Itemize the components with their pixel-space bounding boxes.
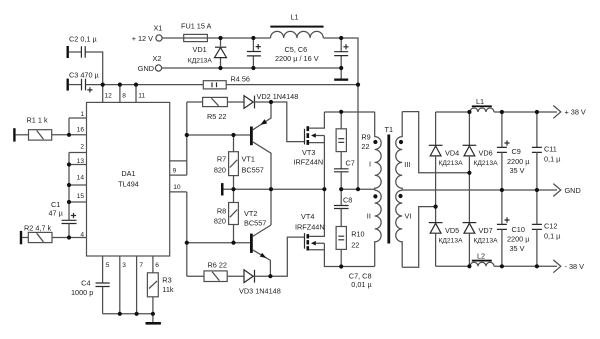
capacitor C5 (2200u/16V) (247, 38, 261, 68)
diode VD3 1N4148 (239, 270, 281, 296)
node pin8 bus (118, 83, 122, 87)
diode VD5 КД213А (429, 207, 463, 267)
node C9 top (500, 110, 504, 114)
svg-text:L2: L2 (477, 251, 485, 260)
node pin10/VT2 base line (185, 241, 189, 245)
svg-text:4: 4 (80, 231, 84, 238)
pin 10 wire down to R6 line (186, 192, 188, 276)
node collectors ground (269, 187, 273, 191)
svg-text:8: 8 (122, 93, 126, 100)
svg-text:5: 5 (106, 262, 110, 269)
svg-text:14: 14 (77, 175, 85, 182)
svg-text:X2: X2 (153, 54, 162, 63)
node VT2 emitter / VD3 (268, 274, 272, 278)
transistor VT3 IRFZ44N (294, 112, 325, 189)
svg-text:820: 820 (214, 217, 226, 226)
winding VI (396, 190, 402, 267)
transistor VT1 BC557 (242, 102, 272, 225)
wire L1 to corner, down to rail R4 and center tap (323, 38, 358, 189)
node pin16/R1 (67, 133, 71, 137)
node VT3 source ground (322, 187, 326, 191)
phasing dot winding I (373, 140, 377, 144)
node VT1 emitter / VD2 (269, 100, 273, 104)
node pin7 rail (135, 312, 139, 316)
svg-text:C10: C10 (512, 225, 525, 234)
svg-text:T1: T1 (385, 125, 394, 134)
svg-text:R4 56: R4 56 (231, 74, 250, 83)
node pin15 (67, 200, 71, 204)
svg-text:22: 22 (351, 241, 359, 250)
-38V arrow (553, 260, 584, 273)
svg-text:I: I (369, 159, 371, 168)
wire X1 to fuse (162, 37, 184, 39)
capacitor C12 0,1u (532, 222, 561, 267)
resistor R3 11k (147, 273, 173, 314)
pin 9 branch to VT1 base (187, 134, 250, 136)
capacitor C8 (334, 189, 352, 208)
svg-text:C2 0,1 µ: C2 0,1 µ (69, 35, 98, 44)
svg-text:12: 12 (105, 93, 113, 100)
+38V rail (436, 111, 470, 113)
svg-text:C9: C9 (512, 147, 521, 156)
diode VD2 1N4148 (244, 92, 298, 108)
svg-text:КД213А: КД213А (439, 238, 464, 245)
diode VD4 КД213А (429, 112, 463, 207)
svg-text:GND: GND (565, 186, 581, 195)
node C7/C8 center (339, 187, 343, 191)
winding II (375, 190, 381, 266)
GND rail from X2 (162, 67, 342, 69)
VCC bus to R4 (86, 84, 204, 86)
svg-text:11: 11 (138, 93, 145, 100)
inductor L2 (470, 251, 494, 266)
svg-text:35 V: 35 V (510, 166, 525, 175)
svg-text:VD2 1N4148: VD2 1N4148 (257, 92, 299, 101)
IC bottom rail (103, 313, 153, 315)
pin 9 wire up to R5 line (186, 102, 188, 175)
svg-text:820: 820 (214, 165, 226, 174)
svg-text:+ 38 V: + 38 V (565, 108, 586, 117)
IC bottom pin wires 5 3 7 6 (102, 256, 104, 283)
svg-text:1000 p: 1000 p (71, 288, 93, 297)
node pin3 rail (118, 312, 122, 316)
svg-text:BC557: BC557 (244, 218, 266, 227)
node R8 bottom (231, 241, 235, 245)
ground under C6 (334, 79, 348, 81)
capacitor C4 1000p (71, 278, 110, 313)
svg-text:1: 1 (80, 111, 84, 118)
svg-text:R7: R7 (217, 155, 226, 164)
GND output line (402, 189, 557, 191)
node R7/R8 ground (231, 187, 235, 191)
svg-text:6: 6 (155, 262, 159, 269)
svg-text:L1: L1 (476, 97, 484, 106)
resistor R10 22 (336, 209, 364, 267)
ground at IC bottom (146, 314, 161, 325)
node VD4/VD5 winding VI (434, 205, 438, 209)
wire winding VI bottom to VD4/VD5 column (402, 207, 435, 268)
fuse FU1 15 A (181, 22, 212, 42)
IC right pin cells 9 10 (170, 161, 187, 192)
node R10 bottom (339, 264, 343, 268)
svg-text:КД213А: КД213А (474, 160, 499, 167)
capacitor C11 0,1u (532, 112, 561, 224)
node pin13 (67, 162, 71, 166)
winding I (375, 112, 381, 190)
svg-text:VD5: VD5 (445, 226, 459, 235)
-38V rail (436, 265, 470, 267)
node R7 top (231, 133, 235, 137)
svg-text:III: III (404, 160, 410, 169)
pin 11 wire (135, 85, 137, 103)
transistor VT2 BC557 (244, 209, 271, 276)
node R9 top (339, 110, 343, 114)
svg-text:C4: C4 (81, 278, 90, 287)
phasing dot winding III (399, 140, 403, 144)
pin 8 wire (119, 85, 121, 103)
svg-text:7: 7 (139, 262, 143, 269)
svg-text:DA1: DA1 (121, 169, 135, 178)
winding III (396, 112, 402, 191)
node C5 bottom (251, 66, 255, 70)
svg-text:15: 15 (77, 193, 85, 200)
svg-text:C11: C11 (544, 145, 557, 154)
svg-text:- 38 V: - 38 V (565, 262, 585, 271)
svg-text:FU1 15 A: FU1 15 A (181, 22, 212, 31)
svg-text:IRFZ44N: IRFZ44N (294, 158, 324, 167)
GND arrow (553, 184, 580, 197)
wire VD3 node to VT4 gate (270, 237, 304, 276)
svg-text:3: 3 (122, 262, 126, 269)
capacitor C10 2200u 35V (497, 217, 530, 266)
transistor VT4 IRFZ44N (295, 189, 375, 266)
svg-text:VI: VI (405, 212, 412, 221)
diode VD7 КД213А (463, 173, 498, 266)
resistor R6 22 (187, 261, 244, 282)
svg-text:IRFZ44N: IRFZ44N (295, 222, 325, 231)
svg-text:R6 22: R6 22 (208, 261, 227, 270)
svg-text:R3: R3 (162, 276, 171, 285)
svg-text:R5 22: R5 22 (207, 112, 226, 121)
node pin9/R7 line (185, 133, 189, 137)
phasing dot winding II (373, 194, 377, 198)
capacitor C9 2200u 35V (497, 112, 530, 224)
left bus pin1-pin16 (68, 118, 70, 135)
svg-text:C8: C8 (343, 196, 352, 205)
svg-text:VD3 1N4148: VD3 1N4148 (239, 287, 281, 296)
svg-text:C3 470 µ: C3 470 µ (69, 71, 100, 80)
svg-text:22: 22 (361, 142, 369, 151)
pin 12 wire (102, 85, 104, 103)
svg-text:0,1 µ: 0,1 µ (544, 154, 561, 163)
node VD1 bottom (218, 66, 222, 70)
svg-text:R10: R10 (351, 230, 364, 239)
node C5 top (251, 36, 255, 40)
svg-text:2: 2 (80, 144, 84, 151)
wire fuse to L1 (+12V rail) (207, 37, 270, 39)
svg-text:10: 10 (173, 184, 181, 191)
wire VT1 emitter node to VT3 gate (271, 102, 304, 142)
resistor R9 22 (336, 112, 371, 169)
svg-text:GND: GND (138, 64, 154, 73)
terminal X2 (138, 54, 162, 73)
capacitor C6 (2200u/16V) (334, 38, 348, 79)
+38V arrow (553, 106, 586, 119)
svg-text:КД213А: КД213А (439, 160, 464, 167)
svg-text:II: II (367, 212, 371, 221)
svg-text:16: 16 (77, 127, 85, 134)
capacitor C3 470u with terminal (67, 71, 100, 93)
svg-text:0,1 µ: 0,1 µ (544, 231, 561, 240)
wire winding III top over to VD6/VD7 column (402, 112, 469, 173)
svg-text:0,01 µ: 0,01 µ (351, 280, 372, 289)
svg-text:VD7: VD7 (479, 226, 493, 235)
node C11 top (535, 110, 539, 114)
node VD6 top rail (467, 110, 471, 114)
wire L1 to +38V arrow (494, 111, 557, 113)
node pin14 (67, 183, 71, 187)
node R4 right (356, 83, 360, 87)
svg-text:VD6: VD6 (479, 149, 493, 158)
node C12 bottom (535, 264, 539, 268)
wire L2 to -38V arrow (494, 265, 557, 267)
node VD1 top (218, 36, 222, 40)
svg-text:R2 4,7 k: R2 4,7 k (24, 223, 52, 232)
wire R4 to +12 rail (226, 84, 358, 86)
svg-text:VT1: VT1 (242, 155, 255, 164)
node pin6 rail (151, 312, 155, 316)
svg-text:VT3: VT3 (302, 148, 315, 157)
svg-text:35 V: 35 V (510, 244, 525, 253)
svg-text:L1: L1 (291, 13, 299, 22)
resistor R1 1k with terminal (13, 116, 69, 142)
node C10 bottom (500, 264, 504, 268)
svg-text:2200 µ: 2200 µ (507, 234, 530, 243)
inductor L1 (270, 13, 323, 39)
svg-text:VD4: VD4 (445, 149, 459, 158)
diode VD1 КД213А (188, 38, 227, 68)
IC left pin leads (69, 111, 87, 238)
pin 10 branch to VT2 base (187, 242, 250, 244)
diode VD6 КД213А (463, 112, 498, 173)
svg-text:11k: 11k (162, 285, 174, 294)
capacitor C1 47u (49, 200, 77, 238)
svg-text:2200 µ / 16 V: 2200 µ / 16 V (275, 54, 319, 63)
svg-text:9: 9 (173, 167, 177, 174)
node pin4/R2 (67, 235, 71, 239)
svg-text:2200 µ: 2200 µ (507, 157, 530, 166)
center tap line (341, 188, 375, 190)
svg-text:+ 12 V: + 12 V (132, 34, 153, 43)
op-amp / IC DA1 TL494 body (87, 102, 170, 256)
capacitor C7 (334, 159, 355, 190)
top node wire VT3 drain to winding I (324, 111, 374, 113)
svg-text:VT4: VT4 (301, 212, 314, 221)
svg-text:VD1: VD1 (193, 45, 207, 54)
svg-text:VT2: VT2 (244, 209, 257, 218)
node VD7 bottom (467, 264, 471, 268)
svg-text:КД213А: КД213А (188, 58, 213, 65)
svg-text:13: 13 (77, 158, 85, 165)
svg-text:C7: C7 (346, 159, 355, 168)
resistor R4 56 (203, 74, 250, 88)
ground bar (driver stage) (221, 183, 324, 195)
svg-text:47 µ: 47 µ (49, 209, 64, 218)
node C11/C12 gnd (535, 188, 539, 192)
capacitor C2 0,1u with terminal (67, 35, 103, 85)
svg-text:R1 1 k: R1 1 k (27, 116, 48, 125)
terminal X1 (132, 24, 163, 43)
node pin11 bus (134, 83, 138, 87)
left bus pin2-pin15-C1 (68, 153, 70, 221)
svg-text:КД213А: КД213А (474, 238, 499, 245)
resistor R7 820 (214, 135, 239, 189)
transformer T1 (367, 112, 412, 268)
svg-text:X1: X1 (154, 24, 163, 33)
svg-text:TL494: TL494 (118, 179, 139, 188)
resistor R8 820 (214, 189, 239, 243)
node center tap rail (356, 187, 360, 191)
node C6 bottom (339, 66, 343, 70)
resistor R5 22 (187, 97, 244, 121)
phasing dot winding VI (398, 194, 402, 198)
node C9/C10 gnd (500, 188, 504, 192)
core (387, 135, 390, 244)
resistor R2 4,7k with terminal (20, 223, 69, 244)
node pin12 bus (101, 83, 105, 87)
svg-text:C12: C12 (544, 222, 557, 231)
node C6 top (339, 36, 343, 40)
svg-text:BC557: BC557 (242, 165, 264, 174)
svg-text:R9: R9 (361, 132, 370, 141)
inductor L1 secondary (470, 97, 494, 112)
svg-text:R8: R8 (217, 207, 226, 216)
node VD6/VD7 winding III (467, 171, 471, 175)
